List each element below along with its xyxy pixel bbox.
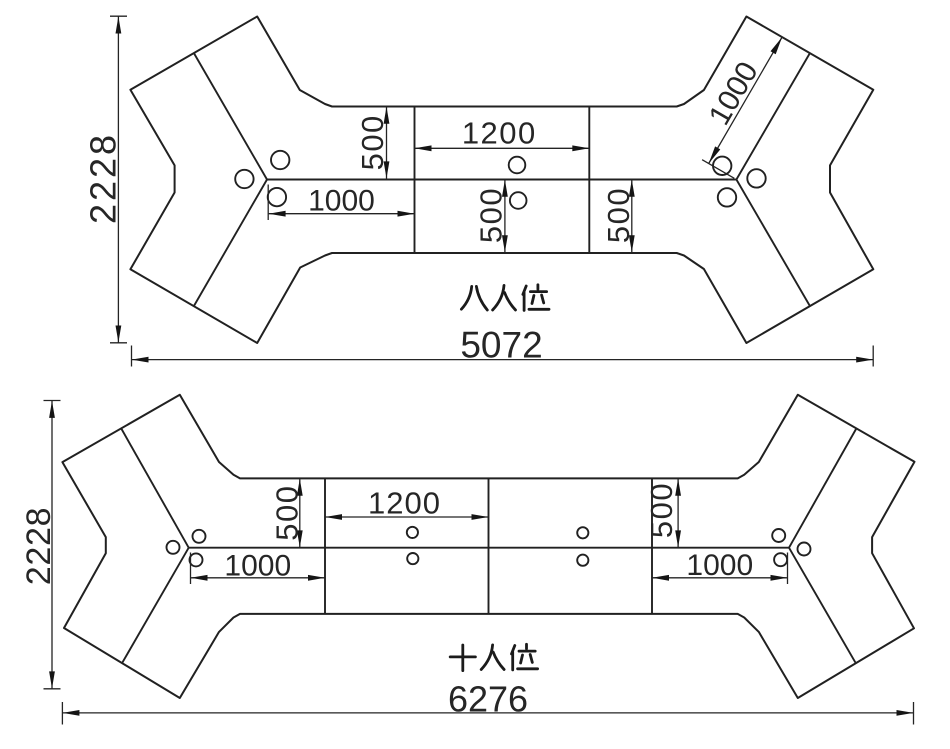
dim 1000 bottom-right: line bbox=[652, 577, 788, 579]
10-seat left Y upper divider bbox=[121, 428, 189, 547]
dim 500 bottom-left: line bbox=[299, 478, 301, 547]
svg-text:1000: 1000 bbox=[224, 550, 291, 583]
svg-text:6276: 6276 bbox=[448, 679, 528, 720]
char shi stroke2 bbox=[461, 645, 464, 671]
svg-text:1200: 1200 bbox=[462, 116, 537, 151]
8-seat left Y upper divider bbox=[194, 53, 267, 179]
dim 5072: left tick bbox=[131, 346, 133, 367]
dim 500 top-left: down arrow bbox=[384, 161, 390, 178]
dim 6276: left arrow bbox=[62, 710, 79, 716]
dim 1000 prong: upper arrow bbox=[771, 37, 783, 54]
dim 1000 bottom-right: left arrow bbox=[652, 575, 669, 581]
dim 1000 bottom-right: right arrow bbox=[771, 575, 788, 581]
dim 500 bottom-right: line bbox=[677, 478, 679, 547]
grommet 10 left Y north bbox=[193, 530, 206, 543]
char ren stroke2 bbox=[505, 293, 516, 310]
dim 1000 prong: line bbox=[709, 37, 782, 163]
svg-text:500: 500 bbox=[355, 114, 390, 170]
grommet 10 band cell2 lower bbox=[577, 555, 588, 566]
dim 1000 top-left: right arrow bbox=[398, 211, 415, 217]
10-seat left Y lower divider bbox=[122, 548, 189, 664]
dim 2228 bottom: bottom tick bbox=[44, 688, 61, 690]
dim 2228 bottom: down arrow bbox=[49, 671, 55, 688]
dim 1200 top: left arrow bbox=[415, 145, 432, 151]
grommet left Y south bbox=[268, 188, 286, 206]
dim 1000 top-left: left arrow bbox=[269, 211, 286, 217]
grommet right Y east bbox=[747, 169, 765, 187]
grommet right Y south bbox=[718, 188, 736, 206]
char wei li middle bbox=[532, 295, 544, 304]
char ba stroke1 bbox=[461, 286, 471, 309]
label 10-seat (shi ren wei) bbox=[450, 644, 537, 670]
char wei li top bbox=[530, 285, 546, 292]
dim 1000 top-left: extension line bbox=[267, 185, 269, 221]
char ba stroke2 bbox=[476, 286, 487, 310]
grommet 10 right Y north bbox=[772, 529, 785, 542]
dim 5072: right arrow bbox=[856, 357, 873, 363]
dim 2228 top: line bbox=[117, 17, 119, 343]
char wei2 li bottom bbox=[518, 667, 538, 670]
char wei2 radical bbox=[512, 646, 515, 670]
svg-text:500: 500 bbox=[601, 187, 636, 243]
svg-text:500: 500 bbox=[269, 484, 304, 540]
dim 1000 prong: extension line near apex bbox=[702, 160, 734, 179]
dim 1200 top: line bbox=[415, 147, 590, 149]
8-seat right Y lower divider bbox=[736, 180, 810, 307]
dim 1000 bottom-right: extension line bbox=[787, 553, 789, 585]
dim 500 mid: down arrow bbox=[502, 235, 508, 252]
dim 500 top-left: line bbox=[386, 107, 388, 179]
8-seat band divider right bbox=[588, 107, 590, 254]
10-seat band divider 1 bbox=[324, 478, 326, 614]
10-seat desk cluster outline bbox=[62, 395, 914, 698]
8-seat desk cluster outline bbox=[130, 17, 873, 344]
char wei li bottom bbox=[529, 308, 549, 311]
8-seat band divider left bbox=[414, 107, 416, 254]
dim 500 mid: line bbox=[504, 180, 506, 253]
10-seat band divider 3 bbox=[651, 478, 653, 614]
8-seat left Y lower divider bbox=[194, 180, 267, 307]
char ren2 stroke1 bbox=[481, 645, 492, 670]
dim 500 right: up arrow bbox=[629, 180, 635, 197]
char wei2 li top bbox=[519, 644, 535, 651]
10-seat mid back-to-back line bbox=[189, 547, 789, 549]
dim 5072: left arrow bbox=[132, 357, 149, 363]
svg-text:500: 500 bbox=[473, 187, 508, 243]
dim 1200 bottom: left arrow bbox=[325, 514, 342, 520]
dim 500 right: line bbox=[631, 180, 633, 253]
dim 500 top-left: up arrow bbox=[384, 107, 390, 124]
grommet 10 band cell1 lower bbox=[407, 553, 418, 564]
10-seat right Y lower divider bbox=[789, 548, 856, 664]
char shi stroke1 bbox=[450, 656, 475, 659]
dim 5072: line bbox=[132, 359, 874, 361]
grommet right Y north bbox=[713, 157, 731, 175]
grommet band lower bbox=[510, 192, 527, 209]
dim 1000 prong: extension line at prong end bbox=[776, 34, 808, 52]
svg-text:1000: 1000 bbox=[308, 185, 375, 218]
dim 1200 top: right arrow bbox=[572, 145, 589, 151]
dim 1000 bottom-left: line bbox=[191, 577, 326, 579]
char wei2 li middle bbox=[521, 655, 533, 664]
grommet 10 left Y south bbox=[190, 553, 203, 566]
dim 500 bottom-left: down arrow bbox=[297, 530, 303, 547]
grommet 10 right Y south bbox=[774, 553, 787, 566]
grommet 10 left Y west bbox=[167, 541, 180, 554]
svg-text:2228: 2228 bbox=[83, 132, 124, 224]
dim 1000 top-left: line bbox=[269, 213, 415, 215]
char ren stroke1 bbox=[493, 285, 504, 310]
dim 2228 top: down arrow bbox=[116, 326, 122, 343]
grommet left Y west bbox=[235, 170, 253, 188]
dim 1000 bottom-left: right arrow bbox=[308, 575, 325, 581]
char ren2 stroke2 bbox=[493, 652, 504, 669]
svg-text:1000: 1000 bbox=[686, 549, 753, 582]
8-seat right Y upper divider bbox=[736, 53, 810, 179]
grommet left Y north bbox=[271, 151, 289, 169]
svg-text:500: 500 bbox=[644, 482, 679, 538]
label 8-seat (ba ren wei) bbox=[461, 285, 549, 311]
dim 6276: right tick bbox=[913, 702, 915, 725]
dim 6276: line bbox=[62, 712, 913, 714]
char wei radical bbox=[523, 286, 526, 310]
svg-text:5072: 5072 bbox=[460, 325, 542, 366]
dim 500 bottom-right: down arrow bbox=[675, 530, 681, 547]
dim 1200 bottom: right arrow bbox=[472, 514, 489, 520]
dim 500 bottom-right: up arrow bbox=[675, 479, 681, 496]
svg-text:1200: 1200 bbox=[368, 485, 441, 520]
grommet 10 band cell2 upper bbox=[577, 527, 588, 538]
dim 2228 top: bottom tick bbox=[110, 342, 127, 344]
dim 6276: right arrow bbox=[897, 710, 914, 716]
dim 1000 bottom-left: extension line bbox=[190, 553, 192, 585]
grommet 10 band cell1 upper bbox=[407, 527, 418, 538]
10-seat band divider 2 bbox=[488, 478, 490, 614]
dim 1000 prong: lower arrow bbox=[709, 146, 721, 163]
dim 6276: left tick bbox=[61, 702, 63, 725]
dim 2228 bottom: up arrow bbox=[49, 401, 55, 418]
dim 5072: right tick bbox=[872, 346, 874, 367]
10-seat right Y upper divider bbox=[789, 428, 856, 547]
dim 500 right: down arrow bbox=[629, 235, 635, 252]
dim 2228 bottom: top tick bbox=[44, 400, 61, 402]
dim 500 mid: up arrow bbox=[502, 180, 508, 197]
dim 500 bottom-left: up arrow bbox=[297, 479, 303, 496]
dim 1000 bottom-left: left arrow bbox=[191, 575, 208, 581]
grommet band upper bbox=[509, 157, 526, 174]
dim 1200 bottom: line bbox=[325, 516, 489, 518]
dim 2228 top: up arrow bbox=[116, 17, 122, 34]
8-seat mid back-to-back line bbox=[267, 179, 736, 181]
dim 2228 top: top tick bbox=[110, 15, 127, 17]
dim 2228 bottom: line bbox=[51, 401, 53, 689]
grommet 10 right Y east bbox=[798, 543, 811, 556]
svg-text:2228: 2228 bbox=[20, 507, 58, 585]
